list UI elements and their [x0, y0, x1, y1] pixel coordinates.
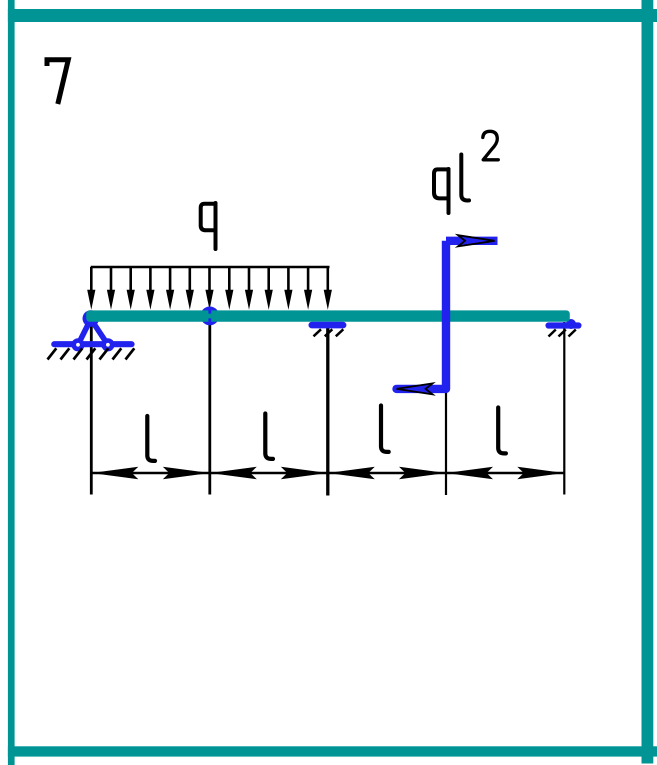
distributed load arrows (13 stems + heads) [91, 267, 327, 291]
extension line D (moment point) [445, 390, 447, 495]
moment couple bottom arm [397, 385, 447, 393]
dimension label l (span 3) [381, 406, 389, 452]
frame left border [8, 0, 15, 765]
frame right border [642, 0, 654, 764]
dimension label l (span 2) [265, 414, 273, 459]
dimension line [91, 472, 564, 475]
dimension arrowheads [91, 467, 564, 480]
label q (load intensity) [201, 203, 216, 249]
left support legs [78, 319, 108, 345]
extension line B (hinge) [208, 316, 211, 495]
moment top arrowhead [458, 235, 495, 246]
frame top border [8, 9, 657, 22]
hinge circle [200, 307, 219, 326]
beam [86, 310, 570, 321]
extension line C (middle support) [326, 322, 329, 496]
extension line A (left support) [90, 320, 93, 495]
middle support bar [312, 322, 343, 329]
right support bar [549, 322, 579, 328]
extension line E (right support) [563, 322, 565, 495]
left support hatching [48, 348, 135, 359]
dimension label l (span 4) [498, 408, 506, 454]
right support hatching [549, 330, 576, 337]
moment couple vertical bar [442, 241, 450, 389]
right support pin bump [566, 319, 576, 329]
left support roller 1 [71, 338, 84, 351]
dimension label l (span 1) [147, 416, 155, 461]
label 7 (problem number) [47, 60, 68, 104]
distributed load line [91, 266, 330, 269]
frame bottom border [8, 746, 657, 756]
label ql^2 (moment value) [434, 155, 469, 214]
left support ground bar [54, 341, 131, 347]
moment couple top arm [446, 237, 498, 245]
left support roller 2 [101, 338, 114, 351]
hinge tabs [208, 310, 211, 313]
left support pin circle [83, 310, 100, 327]
middle support hatching [314, 329, 344, 336]
moment bottom arrowhead [397, 383, 433, 394]
